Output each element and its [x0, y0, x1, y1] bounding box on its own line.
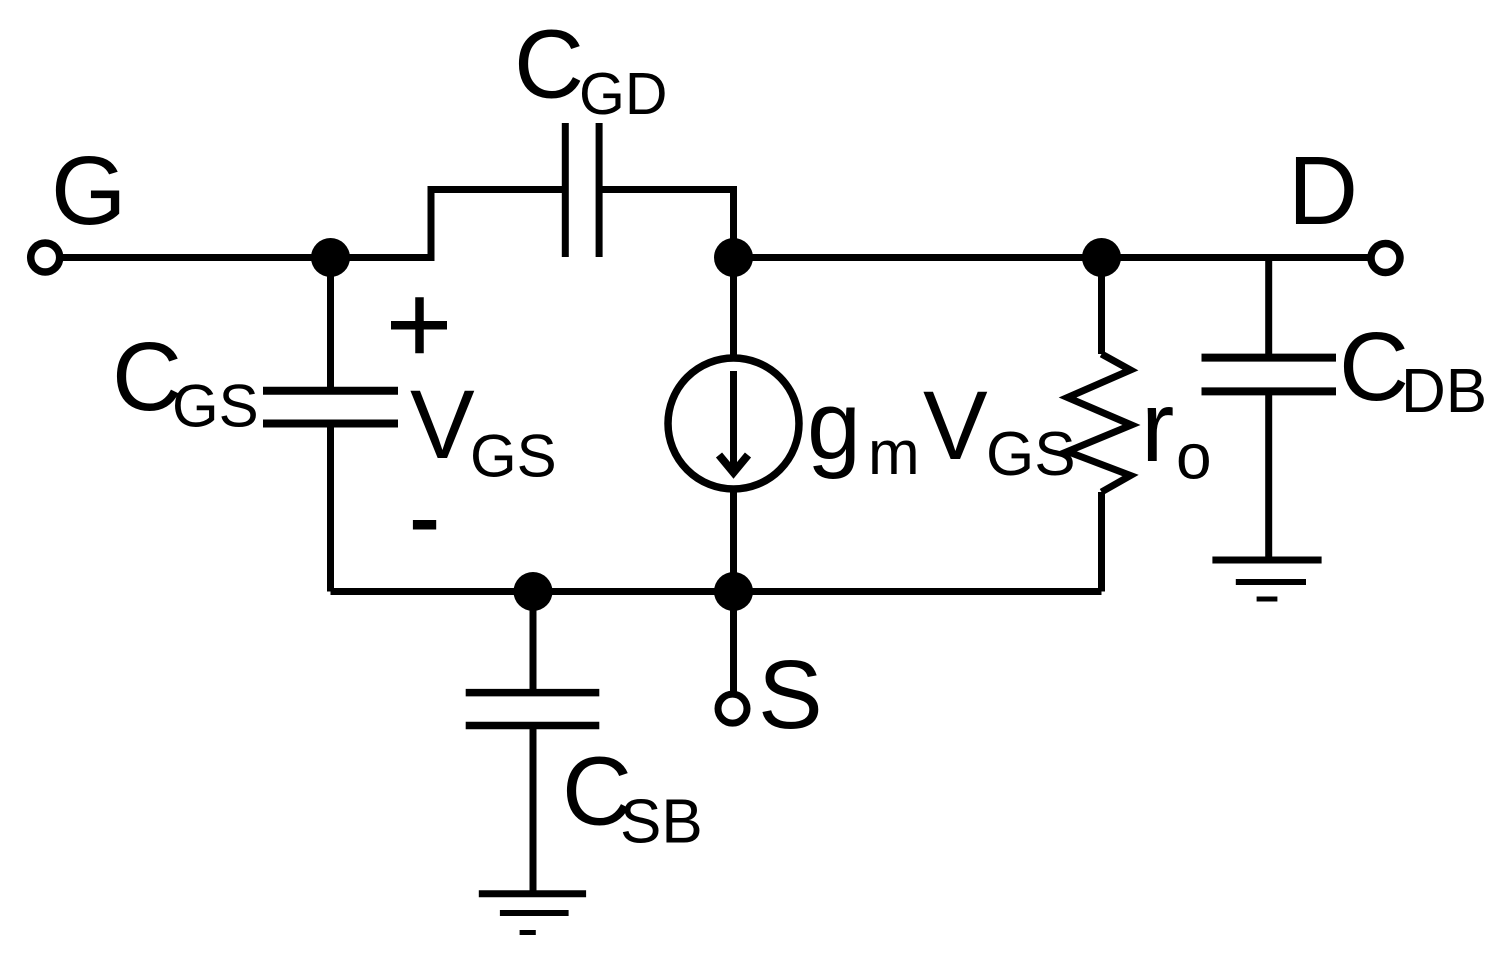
- svg-text:g: g: [807, 371, 861, 480]
- wire C_GS bottom plate to bottom rail: [327, 426, 334, 592]
- svg-text:o: o: [1176, 421, 1212, 493]
- wire G terminal to node A: [63, 254, 331, 261]
- wire resistor to bottom rail: [1098, 492, 1105, 592]
- bottom rail wire: [331, 588, 1102, 595]
- label C_SB: [562, 737, 703, 857]
- wire node B down to current source: [730, 258, 737, 359]
- terminal S (open circle): [718, 694, 747, 723]
- wire branch from top wire down to C_DB: [1265, 258, 1272, 355]
- svg-text:DB: DB: [1401, 357, 1487, 426]
- node A (gate node): [311, 238, 350, 277]
- svg-text:D: D: [1288, 136, 1358, 245]
- svg-text:GS: GS: [172, 373, 259, 440]
- svg-text:C: C: [514, 10, 584, 119]
- node D (source-bulk node): [514, 572, 553, 611]
- svg-text:GS: GS: [470, 423, 557, 490]
- ground (below C_SB): [479, 894, 586, 933]
- capacitor C_DB: [1202, 358, 1337, 392]
- wire node C down to resistor: [1098, 258, 1105, 355]
- svg-text:C: C: [1339, 312, 1409, 421]
- current source gmVGS (circle with down arrow): [668, 358, 799, 489]
- capacitor C_SB: [466, 693, 600, 726]
- wire C_DB to ground: [1265, 394, 1272, 560]
- wire C_SB to ground: [530, 728, 537, 894]
- wire node B to node C: [734, 254, 1102, 261]
- label C_GS: [112, 322, 259, 440]
- svg-text:GS: GS: [986, 420, 1076, 489]
- label C_GD: [514, 10, 668, 127]
- resistor r_o (zigzag): [1068, 354, 1132, 492]
- svg-text:SB: SB: [620, 787, 703, 856]
- label + (VGS polarity plus): [391, 297, 447, 353]
- node E (source node): [714, 572, 753, 611]
- capacitor C_GD: [565, 123, 599, 257]
- node B (top node above current source): [714, 238, 753, 277]
- svg-text:V: V: [923, 371, 988, 480]
- label g_m V_GS: [807, 371, 1076, 489]
- svg-text:G: G: [51, 136, 126, 245]
- label V_GS: [410, 370, 557, 490]
- capacitor C_GS: [263, 391, 398, 424]
- wire node A to C_GD left plate (step up): [331, 190, 564, 258]
- wire node D down to C_SB: [530, 592, 537, 691]
- wire node C to terminal D: [1102, 254, 1369, 261]
- label r_o: [1141, 371, 1212, 493]
- label C_DB: [1339, 312, 1487, 426]
- svg-text:V: V: [410, 370, 475, 479]
- node C (drain node): [1082, 238, 1121, 277]
- terminal D (open circle): [1371, 244, 1400, 273]
- label - (VGS polarity minus): [413, 520, 436, 530]
- terminal G (open circle): [31, 243, 60, 272]
- wire node A down to C_GS top plate: [327, 258, 334, 389]
- wire C_GD right plate to node B (step down): [601, 190, 734, 258]
- svg-text:m: m: [868, 419, 920, 488]
- ground (below C_DB): [1212, 560, 1321, 599]
- wire node E to terminal S: [730, 592, 737, 693]
- wire current source to node E: [730, 489, 737, 592]
- svg-text:GD: GD: [579, 61, 668, 127]
- svg-text:r: r: [1141, 371, 1174, 483]
- svg-text:S: S: [758, 640, 823, 749]
